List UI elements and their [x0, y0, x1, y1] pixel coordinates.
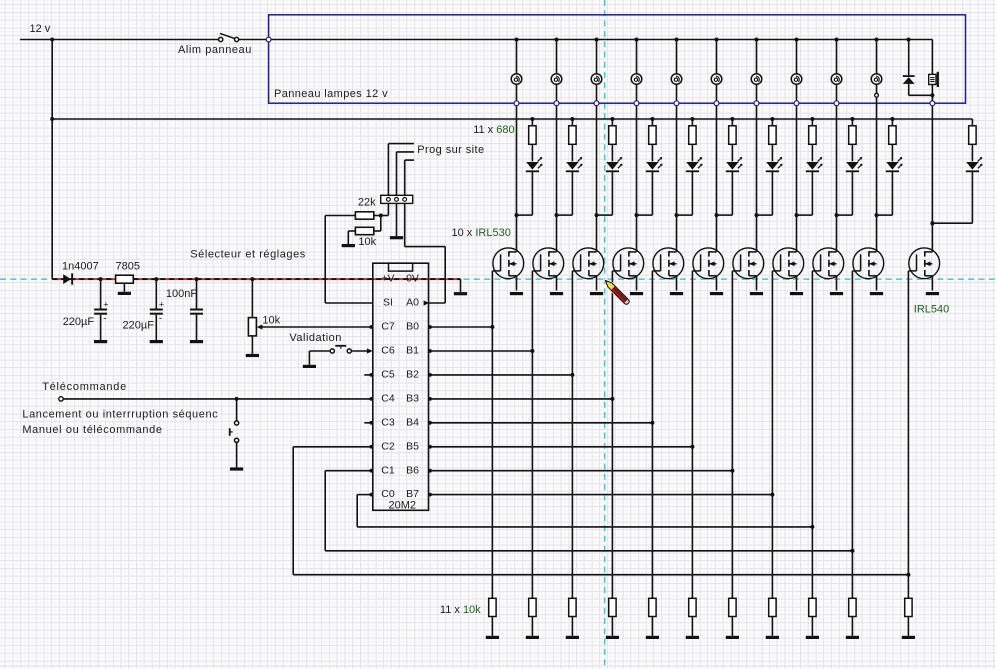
junction rail / capacitor C3	[195, 277, 199, 281]
junction LED 7 / drain	[755, 213, 759, 217]
LED D10	[886, 162, 898, 170]
transistor Q9 IRL530	[813, 248, 844, 279]
ground prog 10k	[342, 244, 355, 247]
svg-text:-: -	[159, 314, 162, 325]
junction remote button	[235, 397, 239, 401]
ground MOSFET Q9 source	[830, 292, 843, 295]
wire lamp 7 drop	[756, 40, 758, 74]
transistor Q4 IRL530	[613, 248, 644, 279]
ground manual button	[230, 467, 243, 470]
wire gate column 3	[571, 271, 573, 598]
wire C2 to gate column 11	[293, 446, 373, 448]
ground pulldown 3	[566, 636, 579, 639]
wire B6 to gate column 7	[429, 470, 733, 472]
diode D12 (panel, across buzzer)	[908, 40, 910, 76]
svg-text:Panneau lampes 12 v: Panneau lampes 12 v	[274, 88, 388, 100]
wire B1 to gate column 2	[429, 350, 533, 352]
svg-text:SI: SI	[383, 297, 393, 309]
transistor Q1 IRL530	[493, 248, 524, 279]
junctions on panel 12V rail	[515, 38, 519, 42]
capacitor C1 220µF	[100, 279, 102, 308]
wire lamp 5 column to MOSFET Q5 drain	[676, 84, 678, 252]
resistor R10 680	[891, 119, 893, 126]
junction rail / capacitor C1	[99, 277, 103, 281]
wire lamp 9 drop	[836, 40, 838, 74]
wire LED 6 cathode down	[731, 172, 733, 215]
wire lamp 8 column to MOSFET Q8 drain	[796, 84, 798, 252]
transistor Q8 IRL530	[773, 248, 804, 279]
wire lamp 10 drop	[876, 40, 878, 74]
vertical cyan guide line	[604, 0, 606, 669]
wire gate column 10	[851, 271, 853, 598]
ground pulldown 9	[806, 636, 819, 639]
wire gate column 2	[531, 271, 533, 598]
svg-text:B4: B4	[406, 416, 419, 428]
svg-text:10k: 10k	[262, 314, 280, 326]
resistor R20 10k pulldown	[809, 598, 816, 616]
wire LED 11 join to drain column	[932, 222, 972, 224]
svg-text:11 x 10k: 11 x 10k	[440, 604, 481, 616]
ground capacitor C2	[150, 340, 163, 343]
wire LED 8 join to drain column	[797, 214, 813, 216]
wire gate column 9	[811, 271, 813, 598]
panel enclosure Panneau lampes 12 v	[269, 15, 966, 103]
junction 680R 10 on LED bus	[890, 117, 894, 121]
transistor Q11 IRL540	[909, 248, 940, 279]
ground 0V pin	[460, 279, 462, 292]
svg-text:7805: 7805	[116, 261, 140, 273]
junction 680R 4 on LED bus	[650, 117, 654, 121]
wire lamp 7 column to MOSFET Q7 drain	[756, 84, 758, 252]
wire lamp 5 drop	[676, 40, 678, 74]
ground MOSFET Q7 source	[750, 292, 763, 295]
junction 680R 1 on LED bus	[530, 117, 534, 121]
wire gate column 1	[491, 271, 493, 598]
wire LED 7 cathode down	[771, 172, 773, 215]
ground potentiometer	[246, 354, 259, 357]
pin junction dots left	[369, 325, 373, 329]
svg-text:0V: 0V	[406, 273, 419, 285]
resistor R5 680	[691, 119, 693, 126]
lamp L3	[591, 74, 602, 85]
ground validation	[303, 365, 316, 368]
svg-text:C4: C4	[381, 393, 395, 405]
pushbutton SW3 manual	[236, 399, 238, 421]
transistor Q3 IRL530	[573, 248, 604, 279]
wire lamp 9 column to MOSFET Q9 drain	[836, 84, 838, 252]
resistor R19 10k pulldown	[769, 598, 776, 616]
LED D3	[606, 162, 618, 170]
svg-text:Télécommande: Télécommande	[42, 381, 127, 393]
junction LED 10 / drain	[875, 213, 879, 217]
svg-text:B1: B1	[406, 345, 419, 357]
junction LED 3 / drain	[595, 213, 599, 217]
svg-text:B5: B5	[406, 440, 419, 452]
svg-text:IRL540: IRL540	[914, 304, 949, 316]
svg-text:-: -	[103, 314, 106, 325]
LED D6	[726, 162, 738, 170]
wire LED 10 join to drain column	[877, 214, 893, 216]
junction B0 / gate 1	[490, 325, 494, 329]
wire validation to ground	[309, 350, 330, 352]
junction 680R 3 on LED bus	[610, 117, 614, 121]
wire LED 6 join to drain column	[717, 214, 733, 216]
wire LED 10 cathode down	[891, 172, 893, 215]
junction buzzer column / LED 11	[930, 221, 934, 225]
wire LED 1 join to drain column	[517, 214, 533, 216]
wire lamp 10 to open terminal	[876, 84, 878, 93]
lamp L9	[831, 74, 842, 85]
ground MOSFET Q10 source	[870, 292, 883, 295]
junction C2 row / gate 11	[906, 573, 910, 577]
svg-text:B3: B3	[406, 393, 419, 405]
ground pulldown 7	[726, 636, 739, 639]
arrow A0 output	[424, 300, 429, 305]
wire B3 to gate column 4	[429, 398, 613, 400]
wire 10k to ground	[348, 230, 355, 232]
svg-text:Sélecteur et réglages: Sélecteur et réglages	[190, 248, 306, 260]
pencil cursor	[603, 278, 630, 305]
pin junction dots right	[428, 325, 432, 329]
wire B5 to gate column 6	[429, 446, 693, 448]
pin stubs C5 and C3	[364, 374, 373, 376]
svg-text:C2: C2	[381, 440, 395, 452]
capacitor C2 220µF	[155, 279, 157, 308]
svg-text:C3: C3	[381, 416, 395, 428]
wire C0 to gate column 9	[357, 494, 373, 496]
junction B1 / gate 2	[530, 349, 534, 353]
ground pulldown 6	[686, 636, 699, 639]
wire LED 3 join to drain column	[597, 214, 613, 216]
capacitor C3 100nF	[196, 279, 198, 308]
junction 680R 6 on LED bus	[730, 117, 734, 121]
junction LED 8 / drain	[795, 213, 799, 217]
LED D5	[686, 162, 698, 170]
svg-text:C1: C1	[381, 464, 395, 476]
wire LED 3 cathode down	[611, 172, 613, 215]
svg-text:220µF: 220µF	[123, 320, 155, 332]
wire LED 1 cathode down	[531, 172, 533, 215]
transistor Q6 IRL530	[693, 248, 724, 279]
junction C1 row / gate 10	[850, 549, 854, 553]
wire LED 11 cathode down	[971, 172, 973, 223]
wire gate column 5	[651, 271, 653, 598]
open terminal under lamp 10	[875, 93, 879, 97]
blue crossing rings on panel border	[514, 101, 519, 106]
ground MOSFET Q6 source	[710, 292, 723, 295]
ground MOSFET Q11 source	[926, 292, 939, 295]
svg-text:B0: B0	[406, 321, 419, 333]
junction diode/buzzer	[930, 93, 934, 97]
wire lamp 6 column to MOSFET Q6 drain	[716, 84, 718, 252]
wire C1 to gate column 10	[325, 470, 373, 472]
resistor R15 10k pulldown	[609, 598, 616, 616]
wire lamp 6 drop	[716, 40, 718, 74]
svg-text:Alim panneau: Alim panneau	[178, 44, 252, 56]
junction LED 11 / drain	[930, 221, 934, 225]
ground capacitor C1	[94, 340, 107, 343]
wire LED 9 join to drain column	[837, 214, 853, 216]
resistor R23 22k	[355, 212, 373, 219]
wire gate column 7	[731, 271, 733, 598]
ground prog pin2	[390, 236, 403, 239]
junction 680R 7 on LED bus	[770, 117, 774, 121]
LED D2	[566, 162, 578, 170]
ground MOSFET Q2 source	[550, 292, 563, 295]
wire +5V rail (red, selected)	[52, 278, 460, 280]
wire lamp 3 column to MOSFET Q3 drain	[596, 84, 598, 252]
wire lamp 4 drop	[636, 40, 638, 74]
ground MOSFET Q3 source	[590, 292, 603, 295]
junction 680R 8 on LED bus	[810, 117, 814, 121]
LED D9	[846, 162, 858, 170]
resistor R7 680	[771, 119, 773, 126]
wire B4 to gate column 5	[429, 422, 653, 424]
wire Télécommande to C4	[63, 398, 373, 400]
switch S1 Alim panneau	[219, 37, 223, 41]
wire 12V vertical drop	[51, 40, 53, 280]
wire LED supply bus	[52, 118, 972, 120]
ground pulldown 8	[766, 636, 779, 639]
wire LED 5 join to drain column	[677, 214, 693, 216]
lamp L8	[791, 74, 802, 85]
wire LED 7 join to drain column	[757, 214, 773, 216]
svg-text:B7: B7	[406, 488, 419, 500]
junction 12V feed	[50, 38, 54, 42]
wire 22k-10k link	[380, 216, 382, 232]
wire lamp 2 column to MOSFET Q2 drain	[556, 84, 558, 252]
junction LED 9 / drain	[835, 213, 839, 217]
resistor R11 680	[971, 119, 973, 126]
arrow C6 input	[367, 348, 373, 353]
lamp L4	[631, 74, 642, 85]
junction 680R 2 on LED bus	[570, 117, 574, 121]
ground pulldown 5	[646, 636, 659, 639]
wire lamp 8 drop	[796, 40, 798, 74]
buzzer BZ1	[931, 40, 933, 75]
junction LED 4 / drain	[635, 213, 639, 217]
resistor R17 10k pulldown	[689, 598, 696, 616]
wire lamp 1 drop	[516, 40, 518, 74]
junction LED 5 / drain	[675, 213, 679, 217]
svg-text:20M2: 20M2	[389, 500, 417, 512]
svg-text:A0: A0	[406, 297, 419, 309]
transistor Q10 IRL530	[853, 248, 884, 279]
resistor R4 680	[651, 119, 653, 126]
LED D1	[526, 162, 538, 170]
resistor R16 10k pulldown	[649, 598, 656, 616]
LED D8	[806, 162, 818, 170]
wire pin2 to ground	[396, 203, 398, 236]
ground capacitor C3	[190, 340, 203, 343]
junction LED 6 / drain	[715, 213, 719, 217]
transistor Q5 IRL530	[653, 248, 684, 279]
wire diode to buzzer column	[909, 94, 933, 96]
junction 680R 9 on LED bus	[850, 117, 854, 121]
potentiometer VR1 10k	[251, 279, 253, 318]
resistor R12 10k pulldown	[489, 598, 496, 616]
wire gate column 11	[907, 271, 909, 598]
ground MOSFET Q1 source	[510, 292, 523, 295]
junction LED 2 / drain	[555, 213, 559, 217]
svg-text:B6: B6	[406, 464, 419, 476]
ground pulldown 1	[486, 636, 499, 639]
ground regulator	[118, 292, 131, 295]
junction B5 / gate 6	[690, 445, 694, 449]
wire gate column 8	[771, 271, 773, 598]
wire pin1 to 22k	[387, 203, 389, 215]
op-amp U1 PICAXE 20M2 body	[373, 263, 429, 510]
resistor R13 10k pulldown	[529, 598, 536, 616]
transistor Q2 IRL530	[533, 248, 564, 279]
svg-text:Prog sur site: Prog sur site	[417, 144, 484, 156]
svg-text:B2: B2	[406, 369, 419, 381]
lamp L1	[511, 74, 522, 85]
junction rail / capacitor C2	[154, 277, 158, 281]
resistor R1 680	[531, 119, 533, 126]
junction LED 1 / drain	[515, 213, 519, 217]
ground pulldown 2	[526, 636, 539, 639]
wire pin3 to A0	[404, 203, 406, 246]
svg-text:12 v: 12 v	[30, 23, 51, 35]
ground MOSFET Q4 source	[630, 292, 643, 295]
svg-text:C5: C5	[381, 369, 395, 381]
lamp L6	[711, 74, 722, 85]
svg-text:+: +	[103, 299, 108, 309]
wire validation to C6	[351, 350, 367, 352]
diode D13 1n4007	[63, 274, 71, 284]
svg-text:22k: 22k	[358, 196, 376, 208]
wire LED 8 cathode down	[811, 172, 813, 215]
ground MOSFET Q8 source	[790, 292, 803, 295]
wire lamp 2 drop	[556, 40, 558, 74]
resistor R24 10k	[355, 227, 373, 234]
wire B0 to gate column 1	[429, 326, 493, 328]
wire buzzer column to MOSFET Q11 drain	[931, 85, 933, 252]
lamp L10	[871, 74, 882, 85]
resistor R21 10k pulldown	[849, 598, 856, 616]
junction B7 / gate 8	[770, 493, 774, 497]
wire wiper to pin C7	[262, 326, 373, 328]
svg-text:10 x IRL530: 10 x IRL530	[452, 227, 511, 239]
ground pulldown 4	[606, 636, 619, 639]
wire LED 5 cathode down	[691, 172, 693, 215]
ground pulldown 11	[902, 636, 915, 639]
svg-text:10k: 10k	[358, 236, 376, 248]
ground MOSFET Q5 source	[670, 292, 683, 295]
svg-text:C6: C6	[381, 345, 395, 357]
svg-text:C7: C7	[381, 321, 395, 333]
chip notch	[389, 263, 413, 271]
pushbutton SW2 Validation	[330, 349, 334, 353]
wire gate column 4	[611, 271, 613, 598]
wire LED 4 cathode down	[651, 172, 653, 215]
wire lamp 3 drop	[596, 40, 598, 74]
ground pulldown 10	[846, 636, 859, 639]
svg-text:220µF: 220µF	[63, 316, 95, 328]
junction 12V / LED bus	[50, 117, 54, 121]
connector J1 prog (3 pins)	[381, 195, 413, 203]
wire gate column 6	[691, 271, 693, 598]
junction B6 / gate 7	[730, 469, 734, 473]
regulator U2 7805	[116, 275, 134, 283]
horizontal cyan guide line	[0, 278, 996, 280]
resistor R3 680	[611, 119, 613, 126]
svg-text:+V: +V	[381, 273, 394, 285]
svg-text:Manuel ou télécommande: Manuel ou télécommande	[22, 424, 162, 436]
wire LED 2 cathode down	[571, 172, 573, 215]
junction B4 / gate 5	[650, 421, 654, 425]
junction 680R 5 on LED bus	[690, 117, 694, 121]
wire LED 2 join to drain column	[557, 214, 573, 216]
wires prog connector to label	[388, 143, 414, 145]
svg-text:C0: C0	[381, 488, 395, 500]
resistor R9 680	[851, 119, 853, 126]
open terminal Télécommande	[59, 397, 63, 401]
wire 12V feed to switch	[20, 39, 219, 41]
svg-text:1n4007: 1n4007	[62, 261, 99, 273]
wire 22k to SI	[325, 215, 355, 217]
wire LED 9 cathode down	[851, 172, 853, 215]
resistor R8 680	[811, 119, 813, 126]
svg-text:11 x 680: 11 x 680	[473, 124, 514, 136]
lamp L5	[671, 74, 682, 85]
wire LED 4 join to drain column	[637, 214, 653, 216]
wire B7 to gate column 8	[429, 494, 773, 496]
svg-text:Lancement ou interrruption séq: Lancement ou interrruption séquenc	[22, 408, 218, 420]
wire lamp 4 column to MOSFET Q4 drain	[636, 84, 638, 252]
svg-text:+: +	[159, 299, 164, 309]
svg-text:Validation: Validation	[289, 332, 342, 344]
resistor R22 10k pulldown	[905, 598, 912, 616]
LED D4	[646, 162, 658, 170]
LED D11	[966, 162, 978, 170]
resistor R18 10k pulldown	[729, 598, 736, 616]
lamp L2	[551, 74, 562, 85]
transistor Q7 IRL530	[733, 248, 764, 279]
junction rail / potentiometer	[250, 277, 254, 281]
junction 22k/10k	[379, 214, 383, 218]
svg-text:100nF: 100nF	[166, 288, 197, 300]
LED D7	[766, 162, 778, 170]
resistor R6 680	[731, 119, 733, 126]
wire B2 to gate column 3	[429, 374, 573, 376]
resistor R14 10k pulldown	[569, 598, 576, 616]
lamp L7	[751, 74, 762, 85]
wire lamp 1 column to MOSFET Q1 drain	[516, 84, 518, 252]
junction B3 / gate 4	[610, 397, 614, 401]
wire lamp 10 column to MOSFET Q10 drain	[876, 97, 878, 252]
junction B2 / gate 3	[570, 373, 574, 377]
junction C0 row / gate 9	[810, 525, 814, 529]
wire switch to panel rail	[239, 39, 933, 41]
resistor R2 680	[571, 119, 573, 126]
